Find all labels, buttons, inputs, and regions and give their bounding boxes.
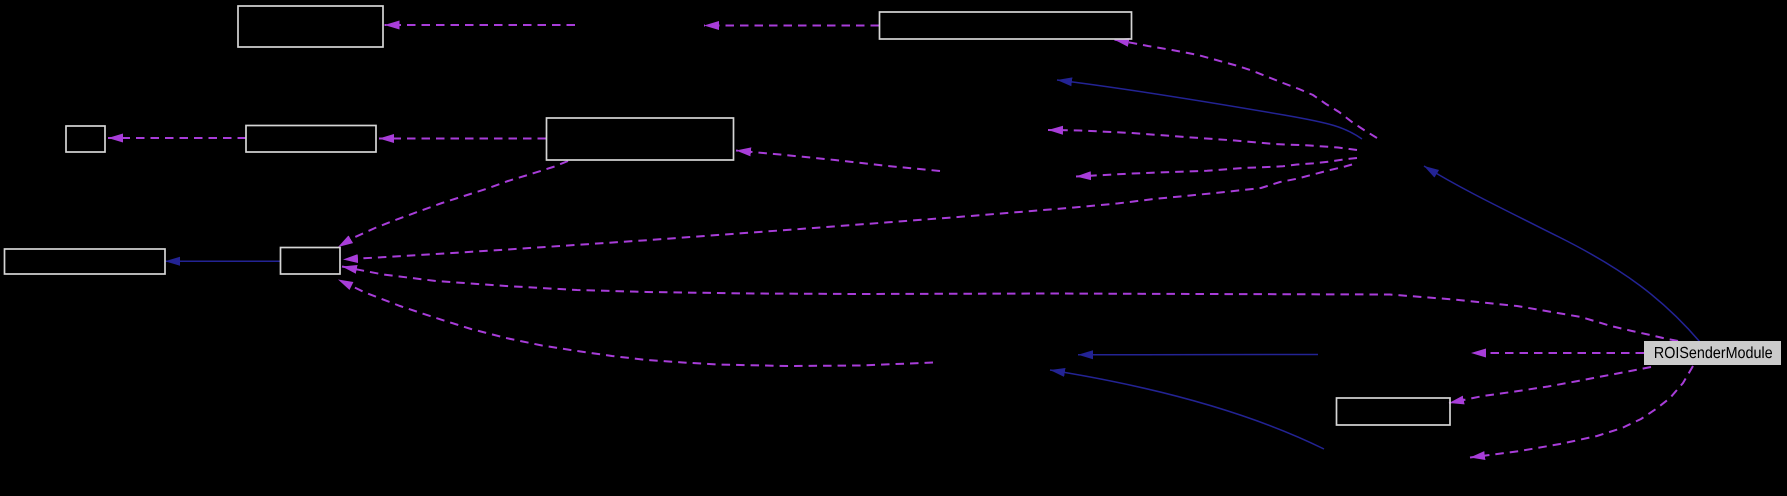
edge E15 dashed: node N9 ROISenderModule to hidden node I3 — [1471, 352, 1644, 354]
edge E14 dashed: hidden node I5c to node N5 right edge — [736, 151, 940, 172]
edge E2 dashed: node N2 to hidden node I1 — [704, 25, 879, 27]
edge E7 dashed: hidden node I2 to node N7 right edge — [343, 165, 1352, 260]
edge E17 solid blue: hidden node I4 to hidden node I6 — [1050, 370, 1324, 449]
edge E19 dashed: node N9 ROISenderModule to node N8 — [1449, 367, 1651, 403]
node N9 ROISenderModule (highlighted) — [1644, 341, 1781, 365]
edge E1 dashed: hidden node I1 to node N1 — [385, 24, 576, 26]
node N7 — [281, 248, 341, 275]
edge E11 solid blue: node N7 to node N6 — [165, 260, 280, 262]
edge E18 dashed: node N9 ROISenderModule to hidden node I4 — [1470, 366, 1693, 458]
node N8 — [1337, 398, 1451, 425]
edge E16 solid blue: hidden node I3 to hidden node I6 — [1078, 354, 1318, 356]
edge E4 solid blue: hidden node I2 to hidden node I5 — [1057, 80, 1362, 139]
edge E3 dashed: hidden node I2 to node N2 bottom-right corner — [1114, 40, 1377, 139]
edge E8 dashed: node N9 ROISenderModule to node N7 right edge — [342, 267, 1678, 342]
node N6 — [5, 249, 166, 274]
edge E13 dashed: node N5 to node N4 — [379, 138, 546, 140]
node N5 — [547, 118, 734, 160]
edge E20 solid blue: node N9 ROISenderModule to hidden node I2 — [1424, 166, 1700, 342]
edge E6 dashed: hidden node I2 to hidden node I5c — [1076, 158, 1357, 177]
edge E12 dashed: node N4 to node N3 — [108, 137, 246, 139]
node N1 — [238, 6, 383, 47]
node N4 — [246, 126, 376, 153]
edge E9 dashed: node N5 bottom to node N7 top-right corner — [338, 161, 568, 247]
node N2 — [880, 12, 1132, 39]
node N3 — [66, 126, 105, 152]
edge E10 dashed: hidden node I6 to node N7 bottom-right corner — [338, 280, 933, 367]
edge E5 dashed: hidden node I2 to hidden node I5b — [1048, 130, 1357, 150]
